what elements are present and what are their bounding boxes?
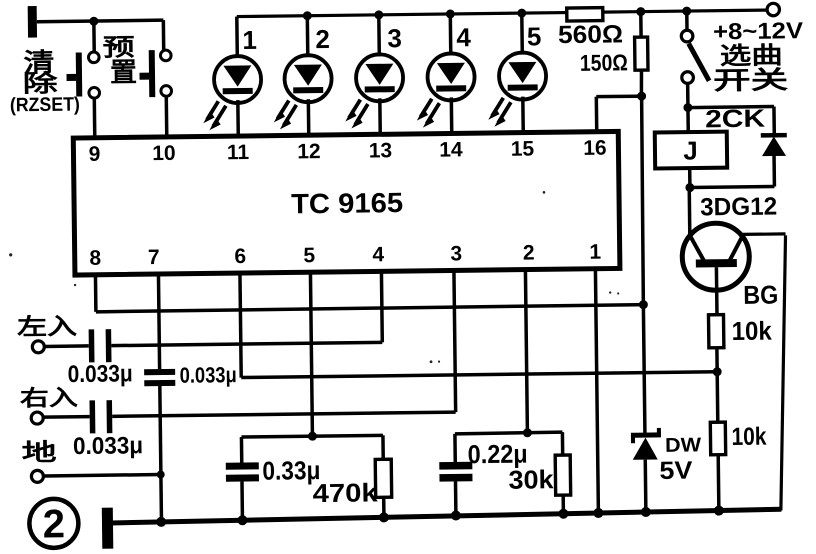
svg-text:4: 4 (456, 22, 471, 52)
svg-text:9: 9 (88, 143, 100, 166)
svg-text:0.033μ: 0.033μ (68, 360, 133, 388)
svg-text:BG: BG (743, 279, 778, 309)
svg-text:5V: 5V (659, 457, 693, 485)
svg-text:5: 5 (303, 244, 315, 267)
svg-text:15: 15 (511, 137, 535, 160)
svg-text:4: 4 (372, 243, 384, 266)
svg-text:开关: 开关 (713, 66, 788, 95)
svg-text:右入: 右入 (20, 385, 78, 411)
svg-text:10k: 10k (731, 423, 766, 451)
svg-text:2: 2 (315, 24, 330, 54)
svg-text:J: J (683, 135, 698, 165)
svg-text:3: 3 (450, 242, 462, 265)
svg-text:470k: 470k (312, 477, 378, 508)
svg-text:TC 9165: TC 9165 (291, 187, 403, 219)
svg-text:(RZSET): (RZSET) (10, 93, 80, 116)
svg-text:1: 1 (242, 25, 257, 55)
svg-text:3: 3 (387, 23, 402, 53)
svg-text:1: 1 (589, 241, 601, 264)
svg-text:7: 7 (148, 246, 160, 269)
svg-text:150Ω: 150Ω (580, 49, 628, 76)
svg-text:5: 5 (527, 21, 542, 51)
svg-text:10: 10 (152, 142, 176, 165)
svg-text:6: 6 (234, 245, 246, 268)
svg-text:12: 12 (297, 140, 321, 163)
svg-text:左入: 左入 (17, 313, 77, 340)
svg-text:3DG12: 3DG12 (700, 192, 777, 221)
svg-text:8: 8 (89, 247, 101, 270)
svg-text:16: 16 (583, 137, 607, 160)
svg-text:560Ω: 560Ω (558, 20, 623, 49)
svg-text:地: 地 (21, 439, 56, 466)
svg-text:0.033μ: 0.033μ (180, 362, 237, 388)
svg-text:13: 13 (369, 139, 393, 162)
svg-text:10k: 10k (732, 316, 773, 346)
svg-text:11: 11 (227, 141, 250, 164)
svg-text:DW: DW (665, 434, 701, 456)
svg-text:置: 置 (110, 57, 137, 87)
svg-text:2: 2 (43, 502, 66, 546)
svg-text:2: 2 (523, 241, 535, 264)
svg-text:0.033μ: 0.033μ (73, 432, 143, 460)
svg-text:2CK: 2CK (705, 105, 765, 134)
svg-text:+8~12V: +8~12V (713, 17, 804, 44)
svg-text:14: 14 (439, 138, 463, 161)
svg-text:30k: 30k (508, 464, 554, 495)
